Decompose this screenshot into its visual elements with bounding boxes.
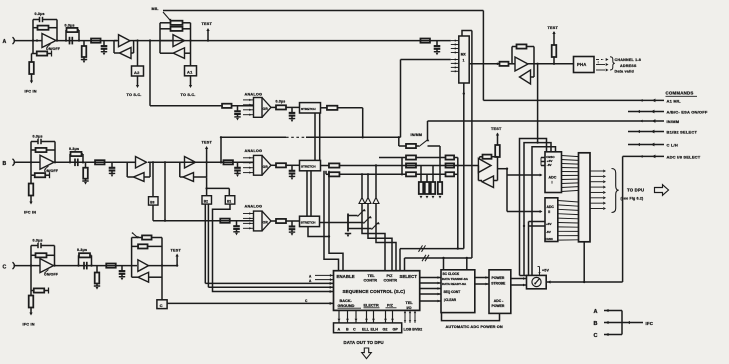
svg-text:SEQ CONT: SEQ CONT	[444, 290, 461, 294]
wire MX top loop	[462, 31, 472, 37]
capacitor C14 0.3us (C feedback)	[31, 238, 55, 265]
svg-text:C: C	[305, 299, 308, 303]
svg-text:TEL: TEL	[406, 301, 414, 305]
svg-text:∣CLEAR: ∣CLEAR	[444, 298, 457, 302]
wire ADC supply riser 3	[532, 147, 556, 276]
switch S1 (MIL)	[163, 12, 171, 22]
node riser triangle 3	[373, 164, 396, 270]
resistor R30 (row3 right)	[446, 163, 455, 167]
resistor R17 (B shunt)	[82, 162, 88, 184]
node TEST (C)	[171, 248, 182, 266]
wire PHA out 1	[596, 58, 609, 61]
node LOB BVB2	[404, 327, 423, 331]
wire B post-amp	[54, 161, 135, 163]
wire ADC II input	[507, 175, 543, 213]
node SC bottom labels	[338, 299, 414, 310]
node IFC IN (C)	[23, 323, 35, 327]
node MIL	[152, 7, 160, 11]
svg-text:MIL: MIL	[152, 7, 160, 11]
svg-text:COMMANDS: COMMANDS	[666, 91, 694, 96]
node B (input B)	[3, 159, 17, 167]
svg-text:TEST: TEST	[491, 127, 502, 131]
svg-text:ANALOG: ANALOG	[245, 93, 263, 97]
svg-text:B1/B2 SELECT: B1/B2 SELECT	[667, 130, 698, 135]
switch bank S2	[348, 209, 380, 232]
svg-text:C: C	[594, 333, 598, 339]
svg-text:C: C	[3, 264, 7, 270]
wire ADC I input	[507, 169, 543, 177]
node MX inputs b	[451, 58, 459, 72]
capacitor C9 (B shunt)	[109, 162, 116, 177]
wire stretch3 bottom link	[308, 227, 330, 238]
capacitor C15 (C series)	[84, 262, 87, 270]
capacitor C13	[289, 221, 296, 236]
node riser triangle 2	[365, 173, 392, 271]
node legend C	[594, 333, 623, 339]
capacitor C10	[234, 162, 241, 177]
resistor R9 (A line)	[420, 39, 430, 43]
node C (input C)	[3, 262, 17, 270]
ground (switch bank)	[345, 234, 351, 238]
node label ADC select	[667, 155, 701, 160]
svg-text:II: II	[548, 210, 550, 214]
capacitor C8 (B series)	[75, 159, 78, 167]
wire clock to power 1	[475, 276, 489, 279]
resistor R29 (row2 right)	[446, 155, 458, 159]
analog OR gate U9	[243, 205, 271, 231]
wire SC to clock 1	[420, 276, 441, 279]
wire register bottom drop	[583, 242, 585, 283]
node data out labels	[338, 328, 399, 332]
svg-text:-5V: -5V	[547, 163, 553, 167]
node SC left inputs	[309, 274, 334, 283]
resistor R26 (row2 left)	[379, 155, 446, 159]
svg-text:ELH: ELH	[371, 328, 379, 332]
op-amp U1 (A preamp)	[42, 34, 60, 51]
wire SC to clock 4	[420, 293, 441, 296]
svg-text:0.3μs: 0.3μs	[33, 238, 43, 242]
resistor R11 0.3us	[271, 99, 300, 109]
svg-text:ANALOG: ANALOG	[245, 149, 263, 153]
svg-text:IFC IN: IFC IN	[25, 90, 37, 94]
node register outputs	[590, 169, 606, 210]
analog OR gate U4	[243, 93, 271, 118]
wire C out	[149, 264, 178, 266]
op-amp U12 (C preamp)	[40, 259, 58, 277]
capacitor C2 (A series)	[70, 37, 73, 45]
svg-text:B: B	[594, 321, 598, 327]
box STRETCH 1	[300, 103, 321, 113]
wire stretch1-2 link	[315, 113, 320, 160]
node SC TEL IO pins	[404, 310, 416, 323]
resistor R32 (gnd)	[419, 166, 423, 199]
svg-text:TEL: TEL	[368, 274, 376, 278]
svg-text:Data valid: Data valid	[615, 70, 635, 74]
svg-text:0.3μs: 0.3μs	[77, 248, 87, 252]
node AUTOMATIC ADC POWER ON	[446, 324, 503, 329]
svg-text:ON/OFF: ON/OFF	[46, 47, 60, 51]
resistor R5 (A shunt)	[81, 41, 87, 64]
wire legend IFC	[622, 321, 643, 324]
node label ESA	[667, 110, 708, 115]
wire legend bracket	[621, 311, 623, 335]
svg-text:LOB BVB2: LOB BVB2	[404, 327, 423, 331]
wire SC to clock 2	[420, 282, 441, 285]
capacitor C16 (C shunt)	[119, 266, 126, 281]
op-amp U11 (PHA driver)	[509, 44, 535, 84]
resistor R31 (row4 right)	[446, 172, 458, 176]
svg-text:TEST: TEST	[548, 26, 559, 30]
wire A input	[16, 39, 42, 41]
wire stretch riser b	[329, 171, 343, 271]
wire row link left	[401, 158, 403, 176]
wire stretch2-3 link	[307, 171, 311, 216]
wire clock to power 2	[475, 283, 489, 286]
node ADC I stubs	[541, 158, 545, 166]
node label A1 M/L	[667, 99, 682, 104]
wire power to switch 1	[511, 277, 527, 280]
svg-text:A/B/C- ESA ON/OFF: A/B/C- ESA ON/OFF	[667, 110, 708, 115]
svg-text:0.3μs: 0.3μs	[276, 99, 286, 103]
node TEST (ADC driver)	[491, 127, 502, 158]
resistor R6 (A series)	[91, 39, 101, 43]
box SC CLOCK	[441, 270, 475, 313]
node IFC	[646, 321, 654, 326]
node legend B	[594, 321, 623, 327]
svg-text:(see Fig 6.2): (see Fig 6.2)	[621, 196, 644, 200]
wire PHA drop	[536, 64, 538, 144]
resistor R14 (B input bias)	[31, 162, 50, 178]
svg-text:0.3μs: 0.3μs	[65, 24, 75, 28]
wire ADC I fan	[562, 156, 579, 192]
capacitor C6	[289, 107, 296, 122]
resistor R25 (row1)	[399, 137, 419, 148]
wire B1 drop	[213, 204, 334, 293]
wire C post-amp	[54, 264, 138, 266]
wire PHA out 2	[596, 63, 609, 66]
wire B3 to OR3	[153, 205, 254, 222]
box A2	[132, 41, 144, 88]
resistor R22 (second path)	[326, 171, 406, 177]
svg-text:CHANNEL 1-8: CHANNEL 1-8	[615, 58, 642, 62]
svg-text:BACK-: BACK-	[340, 299, 353, 303]
resistor R35 (gnd)	[428, 146, 443, 199]
resistor R23	[220, 219, 230, 223]
svg-text:CkSC: CkSC	[545, 237, 554, 241]
resistor R12	[321, 106, 363, 110]
resistor R41 (C shunt)	[94, 266, 100, 290]
node SC title	[343, 289, 406, 294]
svg-text:I/O: I/O	[407, 306, 412, 310]
svg-text:STRETCH: STRETCH	[301, 107, 316, 111]
svg-text:IFC IN: IFC IN	[23, 323, 35, 327]
svg-text:0.3μs: 0.3μs	[35, 12, 45, 16]
node IFC IN (A)	[25, 90, 37, 94]
svg-text:A1 M/L: A1 M/L	[667, 99, 682, 104]
wire stretch1 to B-tap line	[362, 108, 364, 139]
svg-text:SEQUENCE CONTROL (S.C): SEQUENCE CONTROL (S.C)	[343, 289, 406, 294]
box ADC II	[545, 198, 558, 242]
wire B input	[16, 161, 40, 163]
svg-text:GROUND: GROUND	[338, 304, 355, 308]
svg-text:ELECTR: ELECTR	[364, 303, 379, 307]
svg-text:SELECT: SELECT	[400, 274, 418, 279]
resistor R20	[271, 163, 300, 167]
svg-text:MX: MX	[461, 53, 467, 57]
wire ADC supply riser 1	[520, 139, 547, 276]
svg-text:DATA TRANSF-SA: DATA TRANSF-SA	[442, 277, 469, 281]
svg-text:ON/OFF: ON/OFF	[44, 273, 58, 277]
switch S3 IN/MM	[411, 121, 430, 147]
wire PHA out 3	[596, 68, 609, 71]
svg-text:GP: GP	[393, 328, 399, 332]
svg-text:P/Z: P/Z	[387, 303, 394, 307]
resistor R36	[500, 62, 509, 66]
node bus slash 2	[422, 255, 429, 261]
box B2	[202, 178, 212, 204]
box B3	[149, 162, 159, 205]
node SC bottom pins group3	[384, 310, 394, 323]
node TEST (A)	[202, 22, 213, 40]
svg-text:B3: B3	[150, 200, 154, 204]
resistor R34 (gnd)	[431, 166, 435, 199]
box STRETCH 3	[300, 216, 320, 226]
wire MX input riser	[401, 60, 451, 138]
svg-text:TO S.C.: TO S.C.	[127, 93, 142, 97]
capacitor C4 (A line shunt)	[434, 41, 441, 56]
resistor R37 (C feedback)	[31, 246, 56, 267]
op-amp U3 (MIL amp pair)	[160, 23, 191, 59]
node MX inputs a	[451, 39, 459, 53]
svg-text:B: B	[3, 161, 7, 167]
wire bus2 to clock drops	[442, 257, 468, 270]
wire C input	[16, 264, 40, 266]
box SEQUENCE CONTROL	[334, 271, 420, 311]
svg-text:P/Z: P/Z	[387, 274, 394, 278]
wire MX output	[469, 63, 499, 65]
svg-text:+5V: +5V	[542, 268, 549, 272]
resistor R1 (A feedback)	[33, 20, 58, 42]
wire B tap vertical	[220, 137, 222, 163]
capacitor C12	[233, 221, 240, 236]
svg-text:AUTOMATIC ADC POWER ON: AUTOMATIC ADC POWER ON	[446, 324, 503, 329]
svg-text:0.3μs: 0.3μs	[33, 134, 43, 138]
node bus slash 1	[419, 245, 426, 251]
op-amp U2 (A buffer pair)	[114, 35, 136, 59]
box output register	[579, 153, 591, 242]
svg-text:+5V: +5V	[546, 222, 553, 226]
wire B interstage	[148, 161, 254, 163]
svg-text:POWER: POWER	[492, 304, 505, 308]
svg-text:ADC: ADC	[549, 176, 557, 180]
node label C L/H	[667, 143, 678, 148]
wire SC to clock 5	[420, 300, 441, 303]
capacitor C3 (A shunt)	[101, 41, 108, 56]
svg-text:A: A	[594, 309, 598, 315]
resistor R15 (IFC B)	[29, 175, 34, 204]
resistor R18 (B series)	[95, 160, 105, 164]
resistor R27 (row3 left)	[406, 163, 416, 167]
svg-text:TEST: TEST	[202, 141, 213, 145]
node TO DPU	[621, 185, 669, 201]
svg-text:OR: OR	[263, 221, 269, 225]
box C	[157, 238, 167, 309]
svg-text:STROBE: STROBE	[491, 282, 506, 286]
svg-text:ADC: ADC	[547, 205, 555, 209]
wire MIL top line	[163, 10, 483, 12]
svg-text:IN/MM: IN/MM	[667, 119, 680, 124]
wire command B1/B2	[628, 130, 664, 134]
wire command ADC select	[623, 155, 664, 159]
svg-text:TO DPU: TO DPU	[627, 188, 644, 193]
svg-text:PHA: PHA	[577, 62, 586, 67]
svg-text:IFC IN: IFC IN	[24, 211, 36, 215]
svg-text:CONTR: CONTR	[364, 279, 378, 283]
resistor R10	[222, 104, 232, 108]
node TO S.C. (A1)	[181, 93, 196, 97]
wire B direct tap	[164, 162, 166, 220]
svg-text:B: B	[346, 328, 349, 332]
wire B1 feed	[205, 187, 229, 196]
svg-text:ADC -: ADC -	[494, 299, 503, 303]
node DPU brace	[612, 169, 619, 213]
node SC top labels	[337, 274, 418, 283]
svg-text:A1: A1	[187, 70, 193, 75]
resistor R38 (C input bias)	[31, 266, 49, 294]
svg-text:DATA READY-SA: DATA READY-SA	[442, 282, 467, 286]
wire B2 drop 1	[205, 204, 333, 285]
op-amp U10 (ADC driver)	[478, 155, 497, 188]
svg-text:TO S.C.: TO S.C.	[181, 93, 196, 97]
wire ADC select vertical	[622, 156, 624, 282]
node CHANNEL ADDRESS	[598, 57, 641, 74]
wire stretch riser a	[324, 171, 339, 271]
wire ADC select horizontal	[546, 280, 622, 283]
wire A post-amp	[56, 39, 117, 41]
svg-text:DATA OUT TO DPU: DATA OUT TO DPU	[344, 340, 384, 345]
wire A main to MX	[136, 39, 451, 41]
svg-text:A: A	[3, 39, 7, 45]
node legend A	[594, 309, 623, 315]
node IFC IN (B)	[24, 211, 36, 215]
svg-text:STRETCH: STRETCH	[301, 165, 316, 169]
node SC bottom pins group2	[365, 310, 375, 323]
wire ADC II fan	[558, 201, 579, 241]
svg-text:ADC I/8 SELECT: ADC I/8 SELECT	[667, 155, 701, 160]
capacitor C11	[289, 165, 296, 180]
wire PHA line	[528, 63, 574, 65]
resistor R39 (IFC C)	[29, 291, 34, 316]
resistor R40 0.3us (C shaping)	[77, 248, 92, 266]
box ADC I	[545, 152, 562, 193]
wire command IN/MM	[428, 119, 665, 123]
svg-text:G2: G2	[383, 328, 388, 332]
svg-text:B2: B2	[204, 199, 208, 203]
wire power loop	[442, 313, 500, 321]
box power switch	[527, 275, 547, 288]
op-amp U13 (C amp pair)	[132, 232, 162, 282]
wire row link right	[457, 158, 459, 250]
svg-text:SC CLOCK: SC CLOCK	[443, 272, 460, 276]
box MX	[459, 36, 469, 83]
capacitor C5	[234, 106, 241, 121]
resistor R24	[271, 219, 300, 223]
svg-text:1: 1	[463, 59, 465, 63]
resistor R7 (MIL)	[160, 21, 191, 25]
wire select bus 2	[405, 31, 472, 271]
svg-text:B1: B1	[227, 199, 231, 203]
svg-text:A: A	[309, 279, 312, 283]
svg-text:I: I	[552, 181, 553, 185]
node COMMANDS title	[666, 91, 698, 97]
svg-text:A: A	[338, 328, 341, 332]
resistor R8 (MIL)	[160, 27, 191, 31]
svg-text:CONTR: CONTR	[384, 279, 398, 283]
node SC bottom pins group1	[338, 310, 358, 323]
box data out	[334, 323, 402, 333]
svg-text:POWER: POWER	[492, 276, 505, 280]
node riser triangle 1	[359, 173, 385, 271]
svg-text:A2: A2	[134, 70, 140, 75]
resistor R21	[321, 163, 479, 167]
box PHA	[574, 57, 595, 73]
node DATA OUT TO DPU	[344, 340, 384, 345]
resistor R19	[223, 160, 233, 164]
box POWER STROBE	[489, 270, 511, 314]
analog OR gate U8	[243, 149, 271, 175]
svg-text:ENABLE: ENABLE	[337, 274, 355, 279]
wire power to switch 2	[511, 284, 527, 287]
node dpu arrow	[362, 348, 372, 359]
node TEST (B)	[202, 141, 213, 178]
wire command A1 M/L	[483, 11, 664, 103]
svg-text:OR: OR	[263, 165, 269, 169]
wire select bus 1	[400, 83, 465, 271]
svg-text:C L/H: C L/H	[667, 143, 678, 148]
svg-text:STRETCH: STRETCH	[301, 220, 316, 224]
svg-text:0.3μs: 0.3μs	[69, 147, 79, 151]
wire into OR1	[232, 105, 254, 107]
wire C to SC	[167, 299, 333, 305]
node label B1/B2	[667, 130, 698, 135]
svg-text:IFC: IFC	[646, 321, 654, 326]
wire B2 drop 2	[208, 204, 333, 289]
resistor R2 (A input bias)	[33, 41, 52, 57]
resistor R28 (row4 left)	[406, 172, 446, 176]
capacitor C7 0.3us (B feedback)	[31, 134, 55, 162]
svg-text:TEST: TEST	[202, 22, 213, 26]
op-amp U7 (B buffer 2)	[180, 157, 207, 182]
wire ADC supply riser 2	[524, 143, 551, 276]
wire B tap line	[220, 136, 401, 138]
wire stretch3 out	[320, 222, 349, 224]
resistor R13 (B feedback)	[31, 142, 56, 164]
node label IN/MM	[667, 119, 680, 124]
box A1	[185, 23, 197, 88]
resistor R33 (gnd)	[425, 174, 429, 198]
capacitor C1 0.3us (A feedback)	[33, 12, 57, 40]
svg-text:ADRESS: ADRESS	[620, 64, 637, 68]
box STRETCH 2	[300, 160, 321, 170]
svg-text:C: C	[353, 328, 356, 332]
node TEST (PHA line)	[548, 26, 559, 64]
wire command C L/H	[628, 143, 664, 147]
svg-text:ANALOG: ANALOG	[245, 205, 263, 209]
resistor R4 0.3us (A shaping)	[65, 24, 80, 41]
resistor R16 0.3us (B shaping)	[69, 147, 83, 162]
op-amp U6 (B buffer 1)	[127, 157, 150, 182]
node +5V	[538, 267, 550, 276]
